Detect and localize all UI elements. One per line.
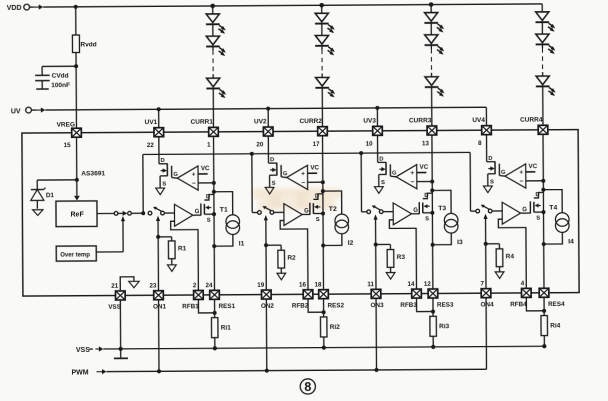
wire buffer out ch2 <box>302 213 310 215</box>
svg-text:D: D <box>379 157 383 163</box>
svg-text:17: 17 <box>313 141 321 148</box>
svg-text:D: D <box>206 194 210 200</box>
svg-text:I1: I1 <box>239 241 245 248</box>
wire LED2 anode <box>321 5 323 13</box>
pin CURR2 <box>318 127 328 136</box>
svg-text:10: 10 <box>366 141 374 148</box>
wire R3 down <box>390 267 392 272</box>
wire ON4 up <box>485 219 487 244</box>
svg-text:T1: T1 <box>220 207 228 214</box>
wire ON1 to PWM <box>158 300 160 371</box>
op-amp A2b (gate driver) <box>284 204 302 226</box>
svg-text:+: + <box>410 170 414 177</box>
wire VC supply stub ch4 <box>526 171 536 173</box>
transistor M1 (UV sense PMOS) <box>159 137 178 188</box>
svg-text:2: 2 <box>193 282 197 289</box>
junction VDD-Rvdd <box>74 5 78 9</box>
switch S2 <box>258 206 274 214</box>
svg-text:T3: T3 <box>438 205 446 212</box>
wire CURR1 column <box>213 137 216 291</box>
LED D1b <box>206 36 226 56</box>
pin RFB3 <box>412 289 422 298</box>
svg-text:D: D <box>535 192 539 198</box>
svg-text:VSS: VSS <box>76 347 90 354</box>
junction drain node ch3 <box>430 188 434 192</box>
ground arrow R4 <box>495 272 504 279</box>
svg-text:S: S <box>490 180 494 186</box>
wire to CVdd <box>42 66 76 75</box>
wire RFB2 below pin <box>308 299 324 312</box>
ground arrow D1 <box>33 210 43 216</box>
junction source node ch4 <box>541 210 545 214</box>
wire dashed to LED4c <box>542 72 544 76</box>
ground bar CVdd <box>36 88 48 90</box>
pin UV4 <box>482 126 492 135</box>
LED D4c <box>536 76 556 96</box>
wire LED4 to dashed <box>541 44 543 48</box>
wire dashed to LED2c <box>321 73 323 77</box>
svg-text:23: 23 <box>149 282 157 289</box>
ground arrow M3 source <box>374 187 383 194</box>
junction Ri3/VSS rail <box>431 345 435 349</box>
wire ON3 to pin <box>375 245 377 290</box>
wire CURR3 column <box>431 135 434 289</box>
svg-text:+: + <box>301 171 305 178</box>
wire LED2c to CURR2 <box>321 88 323 127</box>
wire buffer out ch3 <box>412 213 420 215</box>
svg-text:Rvdd: Rvdd <box>80 41 96 48</box>
switch S1 <box>148 207 164 215</box>
op-amp A1b (gate driver) <box>174 204 192 226</box>
svg-text:D: D <box>424 193 428 199</box>
svg-text:4: 4 <box>521 280 525 287</box>
wire ref drop ch2 <box>252 154 258 213</box>
current source I4 <box>555 213 569 233</box>
arrow switch actuator ch1 <box>156 216 160 221</box>
resistor Rvdd <box>72 35 79 53</box>
resistor Ri4 <box>541 316 548 336</box>
svg-text:14: 14 <box>407 281 415 288</box>
ground arrow M1 source <box>156 188 165 195</box>
svg-text:7: 7 <box>480 280 484 287</box>
svg-text:CURR2: CURR2 <box>300 118 323 125</box>
ground arrow R3 <box>386 273 395 280</box>
junction I1 return <box>212 244 216 248</box>
wire to I3 <box>432 190 451 213</box>
svg-text:I2: I2 <box>348 240 354 247</box>
junction CURR2 / comparator <box>321 180 325 184</box>
ground stub pin21 <box>114 349 128 359</box>
svg-text:G: G <box>173 172 178 178</box>
transistor T2 <box>310 194 323 215</box>
resistor R3 <box>387 250 394 268</box>
arrow switch actuator ch2 <box>264 215 268 220</box>
junction ON2/PWM rail <box>265 369 269 373</box>
wire ON2 to PWM <box>265 299 267 370</box>
wire Ri3 to VSS <box>432 336 434 347</box>
wire Ri2 to VSS <box>323 337 325 348</box>
wire to R3 <box>376 244 391 249</box>
transistor T1 <box>201 195 214 216</box>
pin RES4 <box>539 288 549 297</box>
svg-text:S: S <box>162 182 166 188</box>
junction RFB2/RES2 <box>322 310 326 314</box>
svg-text:VC: VC <box>201 165 210 172</box>
wire comparator inv input ch4 <box>526 180 543 182</box>
svg-text:CURR1: CURR1 <box>191 118 214 125</box>
resistor Ri2 <box>320 317 327 337</box>
pin ON3 <box>371 289 381 298</box>
svg-text:Ri1: Ri1 <box>221 325 232 332</box>
svg-text:+: + <box>192 171 196 178</box>
svg-text:R2: R2 <box>287 255 296 262</box>
wire LED1 anode <box>212 6 214 14</box>
wire Ri4 to VSS <box>543 336 545 347</box>
ground arrow internal VSS <box>129 281 139 287</box>
wire LED1a-b <box>212 24 214 36</box>
junction I2 return <box>321 243 325 247</box>
svg-text:S: S <box>207 218 211 224</box>
wire ON4 to pin <box>485 244 487 289</box>
pin ON4 <box>481 289 491 298</box>
op-amp A4b (gate driver) <box>502 202 520 224</box>
op-amp A3b (gate driver) <box>393 203 411 225</box>
wire to I2 <box>323 191 342 214</box>
pin RES1 <box>210 290 220 299</box>
wire RES1 to Ri1 <box>214 300 216 318</box>
svg-text:D: D <box>488 156 492 162</box>
svg-text:+: + <box>519 169 523 176</box>
pin VSS <box>115 291 125 300</box>
svg-text:D: D <box>161 158 165 164</box>
svg-text:S: S <box>536 216 540 222</box>
wire ON4 to PWM <box>485 298 487 369</box>
svg-text:−: − <box>192 180 196 187</box>
wire R4 down <box>499 267 501 272</box>
wire dashed segment string 3 <box>430 49 432 73</box>
arrow switch actuator ch4 <box>483 214 487 219</box>
svg-text:T4: T4 <box>549 205 557 212</box>
wire switch to buffer ch4 <box>492 210 502 212</box>
LED D3b <box>424 35 444 55</box>
svg-text:S: S <box>425 216 429 222</box>
svg-text:R3: R3 <box>397 254 406 261</box>
svg-text:100nF: 100nF <box>51 82 70 89</box>
junction Ri1/VSS rail <box>213 346 217 350</box>
wire UV2 drop <box>267 109 269 127</box>
wire ON1 to pin <box>157 237 159 291</box>
junction ref rail drop ch3 <box>359 151 363 155</box>
LED D2c <box>315 77 335 97</box>
wire ON3 up <box>375 220 377 245</box>
wire switch to buffer ch3 <box>383 211 393 213</box>
LED D1a <box>206 14 226 34</box>
junction RFB1/RES1 <box>213 311 217 315</box>
junction ref node ch1 <box>141 211 145 215</box>
svg-text:T2: T2 <box>329 206 337 213</box>
pin RFB4 <box>521 288 531 297</box>
wire switch to buffer ch1 <box>164 212 174 214</box>
svg-text:18: 18 <box>314 281 322 288</box>
svg-text:1: 1 <box>207 142 211 149</box>
junction VDD rail / LED string 3 <box>429 2 434 7</box>
svg-text:G: G <box>283 171 288 177</box>
svg-text:−: − <box>520 178 524 185</box>
svg-text:UV3: UV3 <box>363 117 376 124</box>
svg-text:D: D <box>315 194 319 200</box>
wire to D1 <box>37 180 77 189</box>
svg-text:Over temp: Over temp <box>60 252 90 258</box>
junction ON1/R1 <box>156 235 160 239</box>
wire switch to buffer ch2 <box>274 211 284 213</box>
wire ref drop ch4 <box>470 152 476 211</box>
junction Ri2/VSS rail <box>322 345 326 349</box>
svg-text:11: 11 <box>367 281 374 288</box>
svg-text:UV1: UV1 <box>145 119 158 126</box>
wire R2 down <box>280 268 282 273</box>
pin CURR4 <box>538 125 548 134</box>
svg-text:RES2: RES2 <box>328 302 345 309</box>
terminal VSS <box>89 346 103 351</box>
junction VDD rail / LED string 1 <box>210 4 215 9</box>
current source I3 <box>444 213 458 233</box>
junction source node ch2 <box>321 211 325 215</box>
transistor T3 <box>419 193 432 214</box>
svg-text:R4: R4 <box>506 253 515 260</box>
transistor M2 (UV sense PMOS) <box>268 136 286 187</box>
terminal UV <box>26 107 46 113</box>
svg-text:RFB3: RFB3 <box>400 302 417 309</box>
wire comparator inv input ch2 <box>308 181 323 183</box>
svg-text:RES1: RES1 <box>219 303 236 310</box>
svg-text:CVdd: CVdd <box>52 73 69 80</box>
junction VREG node <box>75 178 79 182</box>
junction drain node ch4 <box>541 188 545 192</box>
junction ON3/R3 <box>374 243 378 247</box>
svg-text:ON4: ON4 <box>481 301 494 308</box>
block ReF reference <box>56 201 97 227</box>
svg-text:VC: VC <box>529 163 538 170</box>
wire LED2 to dashed <box>321 46 323 50</box>
wire LED3a-b <box>430 23 432 35</box>
transistor T4 <box>530 192 543 213</box>
junction I3 return <box>431 243 435 247</box>
current source I2 <box>335 214 349 234</box>
wire LED1 to dashed <box>212 46 214 50</box>
wire VREG to ReF arrow <box>74 180 80 201</box>
wire RFB4 below pin <box>526 297 544 310</box>
junction drain node ch1 <box>212 190 216 194</box>
transistor M4 (UV sense PMOS) <box>487 135 506 186</box>
junction RFB3/RES3 <box>431 309 435 313</box>
wire UV4 drop <box>485 107 487 125</box>
svg-text:21: 21 <box>111 283 119 290</box>
svg-text:G: G <box>392 171 397 177</box>
svg-text:−: − <box>301 180 305 187</box>
svg-text:I3: I3 <box>457 239 463 246</box>
junction source node ch1 <box>212 212 216 216</box>
wire RES4 to Ri4 <box>543 297 545 315</box>
svg-text:−: − <box>411 179 415 186</box>
LED D1c <box>206 78 226 98</box>
LED D4a <box>535 12 555 32</box>
wire R1 down <box>171 259 173 265</box>
svg-text:RES4: RES4 <box>548 301 565 308</box>
wire comparator inv input ch1 <box>198 182 214 184</box>
junction drain node ch2 <box>321 189 325 193</box>
junction UV rail / UV1 <box>157 107 161 111</box>
wire LED3 anode <box>430 5 432 13</box>
wire dashed segment string 2 <box>321 49 323 73</box>
svg-text:I4: I4 <box>568 239 574 246</box>
junction ON3/PWM rail <box>374 368 378 372</box>
wire VC supply stub ch3 <box>417 172 427 174</box>
arrow Overtemp actuator <box>121 216 125 221</box>
wire dashed segment string 1 <box>212 50 214 74</box>
wire ON2 to pin <box>265 245 267 290</box>
junction CURR4 / comparator <box>541 179 545 183</box>
wire LED3c to CURR3 <box>431 87 433 126</box>
wire CURR2 column <box>322 136 325 290</box>
svg-text:ON1: ON1 <box>153 303 166 310</box>
wire to R4 <box>486 244 500 249</box>
pin RFB2 <box>303 290 313 299</box>
pin CURR1 <box>209 127 219 136</box>
junction VSS rail / pin21 <box>119 347 123 351</box>
switch S4 <box>476 205 492 213</box>
op-amp A4a (UV comparator) <box>505 164 526 188</box>
junction ON1/PWM rail <box>157 369 161 373</box>
svg-text:8: 8 <box>304 380 311 394</box>
pin RES2 <box>319 290 329 299</box>
junction UV rail / UV2 <box>266 107 270 111</box>
svg-text:VC: VC <box>310 165 319 172</box>
wire ON3 to PWM <box>375 299 377 370</box>
wire VC supply stub ch2 <box>308 172 318 174</box>
ground arrow M4 source <box>483 186 492 193</box>
svg-text:RES3: RES3 <box>437 302 454 309</box>
ground arrow R1 <box>167 265 176 272</box>
LED D3c <box>425 77 445 97</box>
wire UV1 drop <box>158 109 160 127</box>
junction CVdd tap <box>74 64 78 68</box>
svg-text:AS3691: AS3691 <box>81 171 105 178</box>
wire VSS pin down <box>119 300 121 349</box>
IC boundary AS3691 <box>22 130 579 296</box>
arrow switch actuator ch3 <box>373 214 377 219</box>
svg-text:VREG: VREG <box>57 122 75 129</box>
pin CURR3 <box>427 126 437 135</box>
resistor R1 <box>168 241 175 259</box>
junction Ri4/VSS rail <box>542 344 546 348</box>
wire I3 return <box>433 233 452 245</box>
wire UV rail <box>45 107 486 110</box>
block Overtemp <box>56 246 96 261</box>
ground arrow M2 source <box>265 187 274 194</box>
LED D2b <box>315 35 335 55</box>
svg-text:UV: UV <box>11 108 21 115</box>
wire I4 return <box>544 232 563 244</box>
wire LED4a-b <box>541 22 543 34</box>
svg-text:D1: D1 <box>46 192 55 199</box>
wire VSS rail <box>103 346 544 349</box>
wire VREG down <box>76 137 78 179</box>
wire dashed segment string 4 <box>541 48 543 72</box>
wire ON1 up <box>157 221 159 237</box>
wire comparator inv input ch3 <box>417 180 432 182</box>
svg-text:8: 8 <box>478 140 482 147</box>
svg-text:16: 16 <box>299 281 307 288</box>
terminal VDD <box>24 4 43 10</box>
svg-text:R1: R1 <box>178 245 187 252</box>
pin RES3 <box>428 289 438 298</box>
wire Rvdd top <box>75 7 77 35</box>
wire feedback to RFB2 <box>280 220 308 289</box>
svg-text:S: S <box>316 217 320 223</box>
wire RFB3 below pin <box>417 298 433 311</box>
svg-text:S: S <box>272 181 276 187</box>
svg-text:Ri3: Ri3 <box>439 323 450 330</box>
svg-text:RFB2: RFB2 <box>292 302 309 309</box>
wire Overtemp output <box>96 221 123 252</box>
svg-text:24: 24 <box>205 282 213 289</box>
svg-text:VDD: VDD <box>7 5 22 12</box>
svg-text:12: 12 <box>424 281 432 288</box>
svg-text:22: 22 <box>147 142 155 149</box>
wire reference rail <box>143 152 471 213</box>
resistor Ri1 <box>211 318 218 338</box>
svg-text:D: D <box>270 157 274 163</box>
junction CURR1 / comparator <box>212 181 216 185</box>
junction UV rail / UV3 <box>375 106 379 110</box>
wire S0 to node <box>131 212 143 214</box>
wire LED4 anode <box>541 4 543 12</box>
pin UV1 <box>154 128 164 137</box>
wire LED3 to dashed <box>430 45 432 49</box>
terminal PWM <box>96 369 106 374</box>
wire dashed to LED3c <box>431 73 433 77</box>
wire dashed to LED1c <box>212 74 214 78</box>
junction ref rail drop ch2 <box>250 152 254 156</box>
switch S3 <box>367 205 383 213</box>
resistor Ri3 <box>430 316 437 336</box>
resistor R2 <box>278 250 285 268</box>
junction VDD rail / LED string 2 <box>319 3 324 8</box>
svg-text:UV4: UV4 <box>472 117 485 124</box>
wire feedback to RFB3 <box>389 220 416 289</box>
junction ON4/R4 <box>484 242 488 246</box>
pin ON2 <box>261 290 271 299</box>
wire to I4 <box>543 190 562 213</box>
svg-text:ON3: ON3 <box>371 302 384 309</box>
figure number 8 <box>300 379 315 394</box>
svg-text:20: 20 <box>256 141 264 148</box>
svg-text:G: G <box>501 170 506 176</box>
wire RES3 to Ri3 <box>432 298 434 316</box>
wire LED4c to CURR4 <box>542 86 544 125</box>
svg-text:ReF: ReF <box>70 211 84 218</box>
svg-text:Ri2: Ri2 <box>330 324 341 331</box>
svg-text:S: S <box>381 180 385 186</box>
svg-text:PWM: PWM <box>71 369 88 376</box>
wire CURR4 column <box>542 134 545 288</box>
svg-text:RFB1: RFB1 <box>182 303 199 310</box>
svg-text:CURR4: CURR4 <box>520 116 543 123</box>
wire to I1 <box>214 192 233 215</box>
wire buffer out ch1 <box>193 214 201 216</box>
wire feedback to RFB4 <box>498 219 526 288</box>
wire to R1 <box>158 237 172 241</box>
